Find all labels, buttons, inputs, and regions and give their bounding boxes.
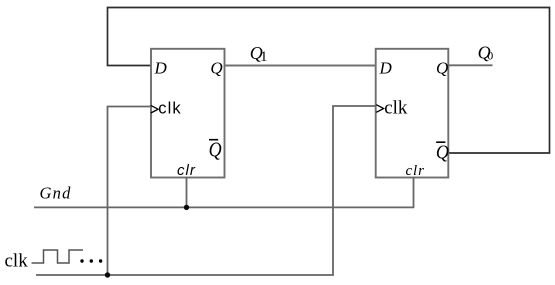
svg-text:clr: clr xyxy=(406,163,425,179)
wire feedback: Q-bar of U2 to D of U1 (top loop) xyxy=(108,8,550,154)
clock chevron U1 xyxy=(151,105,158,113)
wire Q0: U2 Q output stub xyxy=(448,64,492,66)
clk input waveform xyxy=(32,250,84,263)
svg-text:clk: clk xyxy=(5,251,29,272)
clock chevron U2 xyxy=(376,105,383,113)
svg-text:Q: Q xyxy=(210,58,222,77)
svg-text:clk: clk xyxy=(384,98,408,119)
svg-text:D: D xyxy=(379,58,393,77)
svg-text:D: D xyxy=(154,58,168,77)
wire clk to U1 clk input xyxy=(108,107,152,276)
svg-text:Q: Q xyxy=(209,140,222,162)
ellipsis dots after waveform xyxy=(80,259,83,262)
wire clk bus and U2 clk input xyxy=(36,106,376,275)
svg-text:Q: Q xyxy=(436,142,449,164)
junction Gnd line / U1 clr xyxy=(184,205,189,210)
svg-text:Q: Q xyxy=(436,58,448,77)
wire U1 clr to Gnd line xyxy=(186,178,188,208)
junction clk bus / U1 clk xyxy=(105,272,110,277)
svg-text:clr: clr xyxy=(177,162,196,179)
wire Q1: U1 Q output to U2 D input xyxy=(225,65,376,67)
D flip-flop U2 body xyxy=(376,49,449,178)
D flip-flop U1 body xyxy=(151,49,225,178)
svg-text:Gnd: Gnd xyxy=(40,184,72,203)
svg-text:0: 0 xyxy=(487,49,493,63)
wire Gnd line to U2 clr xyxy=(34,178,414,208)
svg-text:clk: clk xyxy=(158,99,181,117)
svg-text:1: 1 xyxy=(260,49,268,65)
